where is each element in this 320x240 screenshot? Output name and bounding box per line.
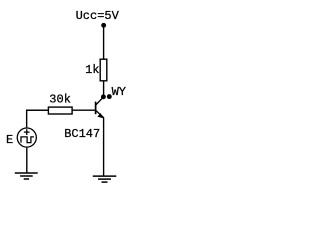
svg-text:BC147: BC147: [64, 127, 100, 141]
transistor Q1 collector diagonal: [96, 97, 103, 105]
svg-text:E: E: [6, 133, 13, 147]
wire left net: source top up and right to 30k: [27, 110, 48, 127]
ground right symbol: [93, 176, 117, 182]
svg-text:30k: 30k: [49, 93, 71, 107]
resistor R1 1k body: [100, 59, 107, 81]
svg-text:Ucc=5V: Ucc=5V: [76, 9, 120, 23]
svg-text:WY: WY: [112, 85, 126, 99]
ground left symbol: [15, 173, 38, 179]
node collector junction dot: [101, 94, 106, 99]
resistor R2 30k body: [48, 107, 72, 114]
svg-text:1k: 1k: [85, 63, 99, 77]
transistor Q1 emitter arrowhead: [97, 113, 103, 118]
wire base net horizontal: [27, 109, 95, 111]
wire R 1k bottom to collector junction: [103, 81, 105, 97]
wire emitter to ground: [103, 118, 105, 176]
source E square-wave glyph: [21, 137, 34, 143]
transistor Q1 BC147 bar: [95, 102, 97, 115]
node WY output dot: [107, 94, 112, 99]
transistor Q1 emitter diagonal: [96, 111, 104, 118]
wire source bottom to ground: [26, 148, 28, 173]
node Ucc terminal dot: [101, 23, 106, 28]
source E circle: [17, 128, 36, 147]
wire Ucc dot to R 1k top: [103, 25, 105, 59]
source E plus sign: [24, 129, 30, 135]
